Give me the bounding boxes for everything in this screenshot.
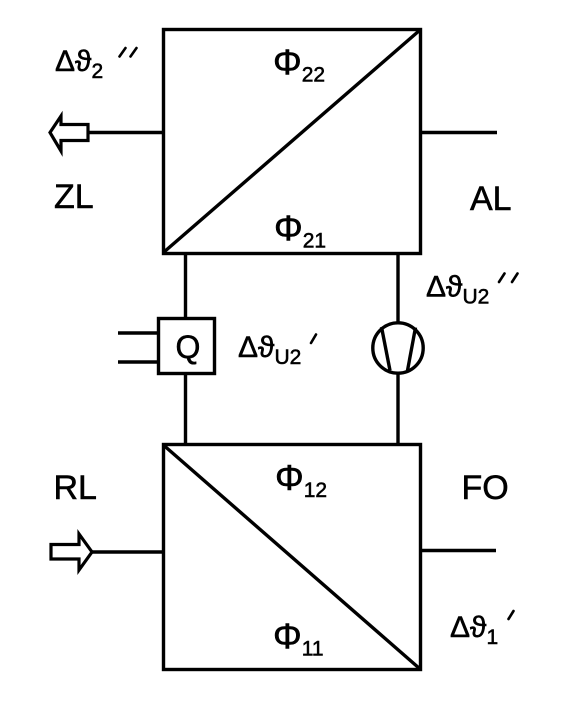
svg-text:Φ22: Φ22 — [273, 42, 325, 87]
svg-text:Φ12: Φ12 — [275, 457, 327, 502]
svg-text:RL: RL — [54, 469, 97, 507]
svg-text:Δϑ2: Δϑ2 — [55, 45, 103, 83]
svg-text:ΔϑU2: ΔϑU2 — [238, 331, 301, 369]
svg-text:ΔϑU2: ΔϑU2 — [426, 271, 489, 309]
svg-text:FO: FO — [462, 469, 509, 507]
svg-text:Φ11: Φ11 — [273, 616, 324, 661]
svg-text:Δϑ1: Δϑ1 — [450, 611, 498, 649]
svg-text:Φ21: Φ21 — [274, 208, 326, 253]
svg-text:Q: Q — [176, 329, 201, 365]
svg-text:ZL: ZL — [54, 178, 94, 216]
svg-text:AL: AL — [470, 180, 512, 218]
